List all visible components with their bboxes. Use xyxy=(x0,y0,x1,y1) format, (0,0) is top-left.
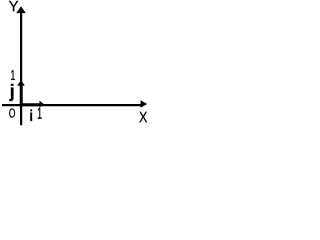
unit vector j arrowhead xyxy=(17,80,25,85)
tick label 1 on X axis xyxy=(38,108,42,119)
unit vector label j (bold) xyxy=(9,84,13,101)
unit vector j shaft xyxy=(20,85,23,107)
X axis label xyxy=(139,112,147,122)
unit vector i arrowhead xyxy=(40,101,44,108)
Y axis arrowhead xyxy=(16,6,26,13)
X axis line xyxy=(2,104,141,106)
origin label O xyxy=(9,108,15,117)
unit vector i shaft xyxy=(20,103,40,106)
tick label 1 on Y axis xyxy=(11,70,15,80)
X axis arrowhead xyxy=(141,100,148,108)
unit vector label i (bold) xyxy=(30,110,32,121)
Y axis line xyxy=(20,13,22,126)
Y axis label xyxy=(9,1,18,11)
